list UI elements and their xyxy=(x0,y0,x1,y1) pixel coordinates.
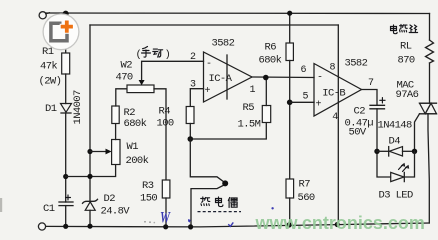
node junction 414-151 xyxy=(412,149,417,154)
svg-text:5: 5 xyxy=(303,92,309,103)
node junction 377-151 xyxy=(374,149,379,154)
svg-text:D4: D4 xyxy=(389,136,401,148)
potentiometer W2 470 xyxy=(127,85,154,93)
resistor R1 xyxy=(62,53,70,74)
wire D4 branch left xyxy=(377,150,389,152)
wire output A to pin6 xyxy=(252,76,314,79)
svg-text:560: 560 xyxy=(298,192,315,204)
wire pin3 to R4 xyxy=(190,89,203,107)
svg-text:D1: D1 xyxy=(45,103,57,115)
resistor R2 680k xyxy=(112,106,119,124)
wire C1 down xyxy=(65,206,67,227)
node terminal bottom-left xyxy=(38,223,45,230)
svg-text:1N4007: 1N4007 xyxy=(72,90,84,125)
node junction 290-102 xyxy=(287,100,293,106)
svg-text:www.cntronics.com: www.cntronics.com xyxy=(255,213,425,233)
svg-text:+: + xyxy=(316,100,322,111)
thermocouple xyxy=(190,139,228,227)
wire right rail to triac xyxy=(429,63,431,103)
svg-text:R3: R3 xyxy=(142,180,154,192)
svg-text:C1: C1 xyxy=(43,203,55,215)
svg-text:24.8V: 24.8V xyxy=(101,206,131,218)
svg-text:R4: R4 xyxy=(159,106,171,118)
svg-text:+: + xyxy=(205,86,211,97)
svg-text:3582: 3582 xyxy=(345,58,368,70)
resistor RL heating element zigzag xyxy=(426,40,434,63)
node junction 90-176 xyxy=(87,174,92,179)
diode D1 1N4007 xyxy=(61,104,72,114)
node terminal top-left xyxy=(39,12,46,19)
wire C2 down xyxy=(377,109,391,177)
wire R3 down xyxy=(165,198,167,227)
diode D4 1N4148 xyxy=(389,147,403,156)
label thermocouple 热电偶 xyxy=(201,197,238,208)
wire supply column x90 xyxy=(89,25,91,201)
node junction output A xyxy=(263,75,269,81)
node junction 90-151 xyxy=(87,149,92,154)
svg-text:-: - xyxy=(206,59,212,70)
svg-text:W: W xyxy=(160,210,171,227)
svg-text:3582: 3582 xyxy=(212,38,235,50)
wire W1 wiper xyxy=(90,151,106,153)
svg-text:W2: W2 xyxy=(121,60,133,72)
svg-text:R5: R5 xyxy=(243,102,255,114)
resistor R3 150 xyxy=(162,180,170,198)
svg-text:100: 100 xyxy=(157,118,174,130)
wire node line 139 xyxy=(190,123,266,140)
wire right rail upper xyxy=(429,14,431,41)
svg-text:RL: RL xyxy=(400,41,412,53)
label 电热丝 xyxy=(391,25,418,34)
svg-text:870: 870 xyxy=(398,55,415,67)
resistor R5 1.5M xyxy=(262,106,270,123)
svg-text:47k: 47k xyxy=(40,61,57,73)
op-amp U1 IC-A xyxy=(204,52,253,102)
node junction bottom-65 xyxy=(63,224,68,229)
wire pin5 xyxy=(290,101,314,103)
diode D2 zener 24.8V xyxy=(83,199,98,210)
wire output B xyxy=(362,90,378,106)
node junction bottom-338 xyxy=(335,222,340,227)
svg-text:R6: R6 xyxy=(265,42,277,54)
node junction bottom-290 xyxy=(287,222,292,227)
svg-text:1N4148: 1N4148 xyxy=(378,120,413,132)
wire bottom rail xyxy=(46,223,430,227)
node junction left-176 xyxy=(63,174,68,179)
op-amp U2 IC-B xyxy=(314,64,362,117)
wire R2 to W1 xyxy=(115,124,117,140)
wire W2 right to R3 xyxy=(154,89,166,180)
potentiometer W1 200k xyxy=(112,140,120,165)
svg-text:4: 4 xyxy=(332,112,338,123)
svg-text:680k: 680k xyxy=(259,55,282,67)
wire R4 down xyxy=(189,124,191,140)
node junction 190-139 xyxy=(188,136,194,142)
node junction top-65 xyxy=(63,11,69,17)
transistor triac MAC97A6 xyxy=(420,103,437,114)
wire inner rail y25 xyxy=(90,24,338,26)
watermark blue speck xyxy=(188,219,191,223)
svg-text:97A6: 97A6 xyxy=(396,89,419,101)
wire D1 down xyxy=(65,113,67,202)
svg-text:(: ( xyxy=(136,49,142,61)
grey specks xyxy=(144,221,146,223)
svg-text:1: 1 xyxy=(250,85,256,96)
capacitor C1 xyxy=(59,195,73,206)
wire top rail xyxy=(46,12,430,15)
resistor R4 100 xyxy=(186,107,194,124)
diode D3 LED xyxy=(391,164,409,182)
svg-text:50V: 50V xyxy=(349,127,367,139)
svg-text:W1: W1 xyxy=(127,141,139,153)
svg-text:(2W): (2W) xyxy=(39,76,62,88)
svg-text:D2: D2 xyxy=(104,193,116,205)
label underline dashes xyxy=(198,211,242,213)
wire R5 up to output xyxy=(265,78,267,106)
svg-text:R7: R7 xyxy=(299,179,311,191)
watermark badge circle xyxy=(43,14,79,50)
node junction bottom-190 xyxy=(188,224,193,229)
resistor R6 680k xyxy=(289,13,291,43)
svg-text:6: 6 xyxy=(301,65,307,76)
left edge artifact xyxy=(0,198,2,212)
svg-text:2: 2 xyxy=(190,52,196,63)
resistor R7 560 xyxy=(286,179,294,198)
wire triac gate xyxy=(415,114,420,152)
node junction bottom-166 xyxy=(163,224,168,229)
capacitor C2 0.47u xyxy=(370,98,385,109)
svg-text:-: - xyxy=(317,73,323,84)
wire W2 wiper to pin2 xyxy=(142,61,204,80)
wire right rail lower xyxy=(428,114,429,223)
svg-text:7: 7 xyxy=(368,78,374,89)
wire R1 to D1 xyxy=(65,74,67,104)
label (手动) xyxy=(136,47,171,62)
node junction bottom-90 xyxy=(87,224,92,229)
wire horizontal 176 xyxy=(66,165,116,177)
svg-text:IC-B: IC-B xyxy=(322,88,345,100)
svg-text:470: 470 xyxy=(116,72,133,84)
wire R6 to node xyxy=(289,61,291,180)
wire R7 down xyxy=(289,198,291,225)
svg-text:8: 8 xyxy=(330,63,336,74)
svg-text:C2: C2 xyxy=(354,106,366,118)
svg-text:1.5M: 1.5M xyxy=(238,119,261,131)
wire D2 down xyxy=(89,210,91,226)
svg-text:680k: 680k xyxy=(124,118,147,130)
wire left column upper xyxy=(65,13,67,53)
svg-text:): ) xyxy=(165,49,171,61)
svg-text:D3 LED: D3 LED xyxy=(379,190,414,202)
wire W2 left to R2 xyxy=(116,89,127,106)
svg-text:IC-A: IC-A xyxy=(209,73,233,85)
svg-text:200k: 200k xyxy=(126,155,149,167)
svg-text:150: 150 xyxy=(140,193,157,205)
